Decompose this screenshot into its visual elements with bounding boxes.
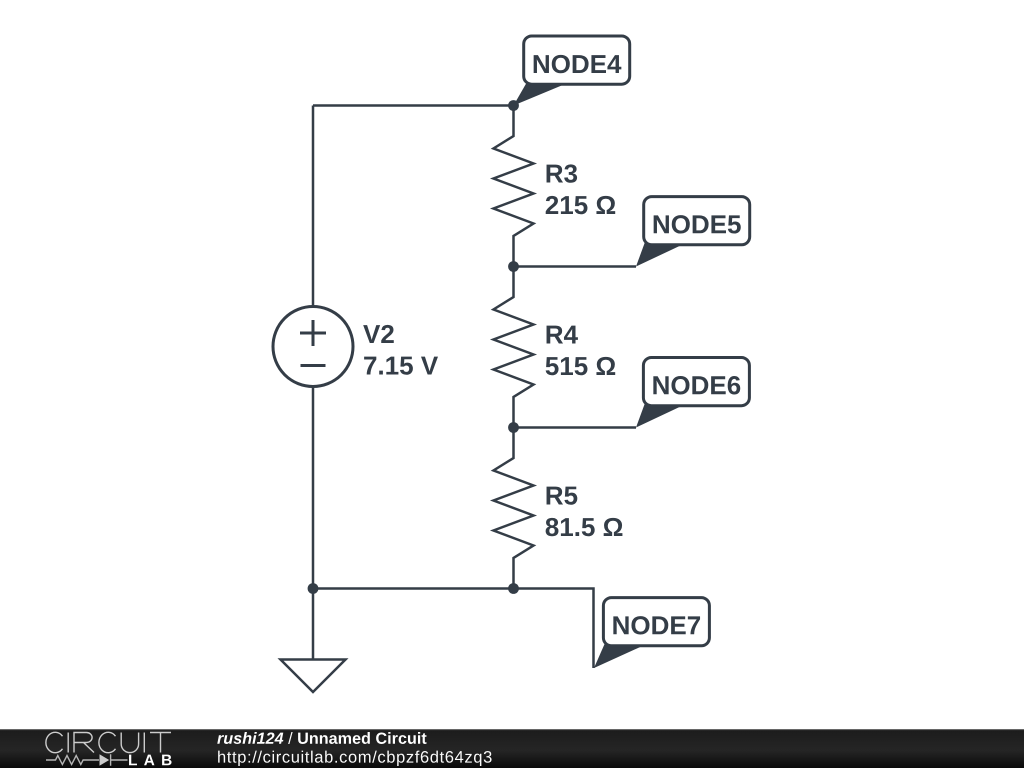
- wire ground lead: [312, 589, 315, 660]
- junction dot at ground tap: [308, 583, 319, 594]
- voltage source V2: [273, 307, 353, 387]
- wire left vertical from V2 minus terminal to bottom wire: [312, 387, 315, 589]
- value label V2 7.15 V: [363, 325, 438, 375]
- value label R3 215 Ω: [546, 164, 616, 214]
- node NODE5 flag: [636, 197, 750, 267]
- junction dot at NODE4: [508, 100, 519, 111]
- resistor R5: [494, 428, 534, 589]
- resistor R3: [494, 106, 534, 267]
- ground: [281, 660, 346, 693]
- wire bottom horizontal from ground junction to node NODE7 junction: [313, 587, 514, 590]
- wire top horizontal from V2 to node NODE4: [313, 104, 514, 107]
- footer CircuitLab logo: [46, 732, 171, 752]
- node NODE4 flag: [514, 36, 630, 106]
- value label R4 515 Ω: [546, 326, 616, 376]
- wire stub from node NODE5 junction to NODE5 flag: [514, 265, 637, 268]
- footer bar: [0, 729, 1024, 768]
- junction dot at NODE6: [508, 422, 519, 433]
- node NODE6 flag: [636, 358, 749, 428]
- wire stub from node NODE7 junction down to NODE7 flag: [514, 589, 594, 669]
- resistor R4: [494, 267, 534, 428]
- junction dot at NODE5: [508, 261, 519, 272]
- value label R5 81.5 Ω: [546, 487, 623, 537]
- footer credit text: [217, 732, 491, 766]
- wire left vertical from top wire to V2 plus terminal: [312, 106, 315, 307]
- wire stub from node NODE6 junction to NODE6 flag: [514, 426, 637, 429]
- junction dot at NODE7: [508, 583, 519, 594]
- node NODE7 flag: [594, 598, 709, 668]
